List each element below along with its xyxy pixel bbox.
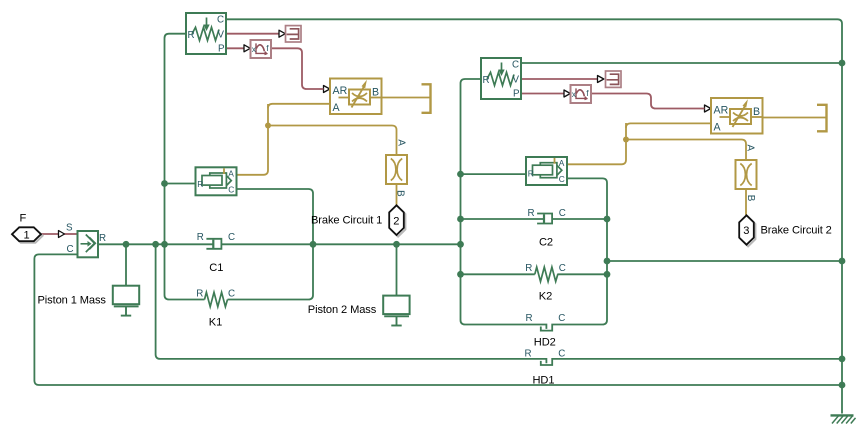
wire: restriction1 B to port 2: [396, 184, 398, 205]
svg-text:C: C: [559, 174, 565, 184]
wire: lookup1 output to orifice1 AR: [271, 48, 320, 89]
svg-text:2: 2: [393, 215, 399, 227]
lookup table block 1: [251, 40, 272, 58]
arrow into dead zone 1: [279, 30, 285, 37]
local restriction 1: [386, 139, 407, 197]
svg-text:R: R: [483, 75, 490, 86]
svg-text:C2: C2: [539, 236, 553, 248]
svg-text:B: B: [753, 106, 760, 118]
svg-text:C: C: [217, 15, 224, 26]
wire: K2 line left part: [461, 273, 535, 275]
sensor U2: ideal translational motion sensor: [481, 58, 521, 99]
wire: C2 line left part: [461, 218, 545, 220]
arrow into dead zone 2: [598, 76, 604, 83]
arrow into lookup2: [564, 90, 570, 97]
wire: main mechanical line right part: [222, 243, 461, 245]
svg-text:C: C: [559, 263, 566, 274]
wire: lookup2 output to orifice2 AR: [592, 94, 701, 109]
svg-text:HD2: HD2: [534, 336, 556, 348]
svg-text:S: S: [66, 222, 73, 233]
svg-text:P: P: [513, 88, 520, 99]
svg-text:C: C: [558, 348, 565, 359]
svg-text:R: R: [525, 348, 532, 359]
wire: orifice1 A tan: [268, 104, 330, 109]
svg-text:R: R: [188, 30, 195, 41]
svg-text:A: A: [228, 168, 234, 178]
wire: orifice2 B to reference bracket: [762, 117, 827, 119]
svg-text:R: R: [99, 233, 106, 244]
wire: tan junction to restriction1 A: [268, 126, 397, 156]
svg-text:1: 1: [24, 229, 30, 241]
port 2 output hexagon: [389, 205, 405, 236]
svg-text:C: C: [559, 208, 566, 219]
svg-text:A: A: [395, 139, 406, 146]
svg-text:C: C: [228, 232, 235, 243]
wire: sensor1 C to right rail, down to ground: [226, 19, 842, 413]
node: tan junction dots: [265, 123, 271, 129]
svg-text:C1: C1: [209, 262, 223, 274]
wire: converter1 R to rail: [165, 183, 196, 185]
svg-text:C: C: [512, 60, 519, 71]
svg-text:R: R: [528, 208, 535, 219]
wire: sensor2 C to right rail: [521, 62, 842, 64]
node: junction dots green: [123, 60, 846, 389]
svg-text:Piston 2 Mass: Piston 2 Mass: [308, 304, 377, 316]
hydraulic reference bracket 1: [422, 84, 431, 113]
svg-text:C: C: [228, 184, 234, 194]
wire: sensor2 V to dead zone 2: [521, 78, 598, 80]
wire: orifice1 B to reference bracket: [382, 97, 431, 99]
wire: rail 607 to right rail: [607, 260, 842, 262]
svg-text:K2: K2: [539, 290, 552, 302]
mass: Piston 2 Mass: [383, 296, 409, 326]
svg-text:C: C: [67, 244, 74, 255]
wire: HD1 rail and left segment with rod stub: [156, 244, 547, 363]
spring K2: [525, 263, 565, 282]
wire: piston 1 mass feed: [125, 244, 127, 285]
wire: converter2 A tan to junction: [566, 123, 626, 164]
wire: K2 line right part: [557, 273, 607, 275]
wire: main mechanical line left part: [98, 243, 213, 245]
wire: force source C down and along bottom to right rail: [34, 254, 842, 385]
wire: converter2 R to rail: [461, 173, 527, 175]
wire: K1 right up to converter1 C: [228, 189, 314, 300]
local restriction 2: [736, 145, 757, 202]
mass: Piston 1 Mass: [113, 286, 139, 316]
svg-text:B: B: [372, 86, 379, 98]
arrow into lookup1: [244, 45, 250, 52]
wire: converter1 A tan to junction: [237, 104, 268, 175]
svg-text:B: B: [395, 190, 406, 197]
arrow into orifice2 AR: [705, 105, 711, 112]
svg-text:A: A: [745, 145, 756, 152]
svg-text:Brake Circuit 2: Brake Circuit 2: [761, 225, 832, 237]
svg-text:V: V: [513, 74, 520, 85]
converter 1: translational hydro-mechanical converter: [196, 167, 237, 195]
svg-text:R: R: [525, 263, 532, 274]
svg-text:R: R: [196, 288, 203, 299]
svg-text:A: A: [333, 102, 341, 114]
svg-text:Piston 1 Mass: Piston 1 Mass: [38, 294, 107, 306]
lookup table block 2: [571, 85, 592, 103]
wire: tan junction to restriction2 A: [626, 140, 746, 161]
wire: orifice2 A tan: [626, 123, 711, 128]
wire: sensor1 V to dead zone 1: [226, 33, 279, 35]
svg-text:Brake Circuit 1: Brake Circuit 1: [311, 215, 382, 227]
svg-text:F: F: [20, 213, 27, 225]
wire: restriction2 B to port 3: [745, 188, 747, 215]
arrow into S: [59, 231, 65, 238]
svg-text:A: A: [714, 121, 722, 133]
svg-text:C: C: [558, 313, 565, 324]
variable orifice 1: [330, 79, 382, 115]
sensor U1: ideal translational motion sensor: [186, 13, 226, 54]
svg-text:P: P: [218, 43, 225, 54]
ground: mechanical translational reference: [831, 415, 856, 423]
svg-text:3: 3: [743, 225, 749, 237]
svg-text:R: R: [528, 169, 534, 179]
wire: sensor2 R down rail to HD2 left with rod stub: [461, 79, 547, 329]
wire: port1 to force source S: [41, 233, 58, 235]
damper C1: [197, 232, 235, 249]
svg-text:A: A: [559, 158, 565, 168]
variable orifice 2: [711, 98, 763, 134]
damper C2: [528, 208, 566, 223]
wire: piston 2 mass feed: [396, 244, 398, 295]
svg-text:K1: K1: [209, 317, 222, 329]
svg-text:R: R: [526, 313, 533, 324]
wire: C2 line right part: [552, 218, 607, 220]
converter 2: translational hydro-mechanical converter: [526, 157, 567, 185]
spring K1: [196, 288, 235, 306]
svg-text:AR: AR: [714, 104, 729, 116]
wire: HD2 cup and right segment up rail to converter2 C: [541, 178, 607, 330]
svg-text:R: R: [197, 179, 203, 189]
dead zone block 2: [606, 71, 622, 87]
wire: HD1 cup and right segment: [541, 359, 842, 365]
wire: sensor1 R down rail to K1 left: [165, 34, 205, 300]
hydraulic reference bracket 2: [817, 105, 827, 132]
svg-text:B: B: [745, 195, 756, 202]
port 1 input hexagon: [12, 227, 43, 243]
force source block: [66, 222, 106, 257]
svg-text:AR: AR: [333, 85, 348, 97]
wire: sensor1 P to lookup1: [226, 47, 244, 49]
svg-text:C: C: [228, 288, 235, 299]
arrow into orifice1 AR: [324, 86, 330, 93]
wire: sensor2 P to lookup2: [521, 93, 564, 95]
svg-text:R: R: [197, 232, 204, 243]
svg-text:V: V: [218, 29, 225, 40]
port 3 output hexagon: [739, 215, 755, 246]
svg-text:HD1: HD1: [533, 374, 555, 386]
dead zone block 1: [286, 26, 302, 42]
